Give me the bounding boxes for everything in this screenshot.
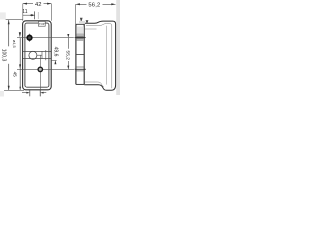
side view plate bottom xyxy=(76,83,84,85)
extension line hole2 vertical xyxy=(39,55,41,96)
centerline screw1 y37.6 xyxy=(17,37,74,39)
dim 100,3 top arrow xyxy=(8,20,10,24)
side view housing faint top inner line xyxy=(85,28,97,30)
dim 11 tick xyxy=(34,11,36,19)
dim 49,6 arrow xyxy=(54,60,56,64)
svg-text:11: 11 xyxy=(22,9,27,15)
dim 42 right extension xyxy=(50,4,52,21)
dim 56,2 arrows xyxy=(76,3,80,5)
lens band upper line xyxy=(23,50,51,52)
svg-text:100,3: 100,3 xyxy=(1,49,7,62)
front view outer body xyxy=(23,21,52,90)
svg-text:55,2: 55,2 xyxy=(64,51,70,61)
svg-text:ø4,5: ø4,5 xyxy=(12,40,17,48)
dim 11 arrows xyxy=(29,14,32,16)
dim 100,3 top extension xyxy=(6,18,23,20)
plate crossbar mid xyxy=(76,54,84,56)
bottom dim right tick xyxy=(39,90,41,96)
lens center circle xyxy=(29,51,37,59)
bottom-left gray patch xyxy=(0,91,4,97)
dim 100,3 line xyxy=(8,20,10,46)
centerline hole2 y69.4 xyxy=(17,68,74,70)
top screw blob xyxy=(80,18,83,23)
svg-text:42: 42 xyxy=(35,2,41,8)
lens vertical divider 2 xyxy=(45,50,47,60)
dim 45 line xyxy=(19,38,21,90)
plate crossbar hole2 lower xyxy=(76,70,84,72)
side view housing outline xyxy=(84,21,115,90)
top arrow 2 xyxy=(86,20,89,24)
dim 42 left arrow xyxy=(23,3,27,5)
dim 55,2 line xyxy=(67,38,69,49)
bottom dim line left xyxy=(22,92,27,94)
background xyxy=(0,0,120,100)
lens band lower line xyxy=(23,58,51,60)
dim 11 line xyxy=(23,14,35,16)
TOP marking box xyxy=(38,21,45,26)
side view housing inner top line xyxy=(86,24,112,89)
dim 45 top arrow xyxy=(19,32,21,37)
bottom dim line right xyxy=(43,92,46,94)
svg-text:49,6: 49,6 xyxy=(52,47,58,57)
side view mounting plate left edge xyxy=(75,24,77,84)
svg-text:56,2: 56,2 xyxy=(88,2,100,8)
dim 42 line xyxy=(23,3,33,5)
dim 56,2 left extension xyxy=(75,4,77,24)
plate boss shading xyxy=(76,27,83,34)
dim 55,2 top arrow xyxy=(67,34,69,38)
top-left gray patch xyxy=(0,12,6,19)
dim 56,2 line xyxy=(76,3,87,5)
plate crossbar hole2 centerline xyxy=(75,68,86,70)
screw1 center vertical xyxy=(29,34,31,42)
dim 42 left extension xyxy=(22,4,24,21)
dim 42 right arrow xyxy=(47,3,51,5)
bottom dim right arrow xyxy=(40,92,43,94)
plate boss centerline xyxy=(75,37,86,39)
side view plate top xyxy=(76,23,85,25)
dim 45 bottom arrow xyxy=(19,87,21,90)
side view mounting plate right edge xyxy=(83,23,85,84)
bottom dim left arrow xyxy=(26,92,29,94)
svg-text:TOP: TOP xyxy=(39,22,45,26)
right scan gray band xyxy=(116,0,120,95)
lens vertical divider 1 xyxy=(41,51,43,58)
plate crossbar hole2 upper xyxy=(76,66,84,68)
lens stub line xyxy=(37,54,42,56)
svg-text:45: 45 xyxy=(12,72,17,78)
dim 49,6 extension xyxy=(51,59,56,61)
dim 55,2 bottom arrow xyxy=(67,66,69,70)
dim 100,3 bottom arrow xyxy=(8,86,10,90)
dim 100,3 bottom extension xyxy=(4,89,24,91)
dim 11 second tick xyxy=(37,12,39,19)
side view lens inner vertical 1 xyxy=(106,26,108,85)
side view housing second bottom line xyxy=(84,82,104,87)
dim 45 mid arrow xyxy=(19,64,21,69)
bottom dim left tick xyxy=(29,90,31,96)
front view inner lens rim xyxy=(25,23,49,87)
screw1 (filled) xyxy=(27,35,32,40)
hole2 grommet xyxy=(38,67,42,71)
